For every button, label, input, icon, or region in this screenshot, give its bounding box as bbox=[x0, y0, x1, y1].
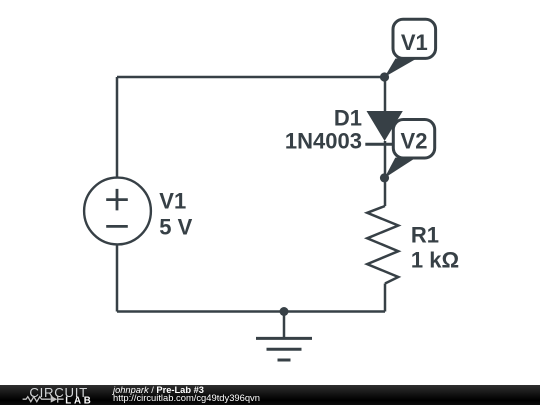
flag V2 tail bbox=[385, 158, 417, 178]
svg-text:V2: V2 bbox=[401, 129, 428, 154]
flag V1 tail bbox=[385, 59, 417, 78]
voltage source V1 bbox=[84, 178, 151, 245]
ground bar 2 bbox=[267, 348, 302, 351]
wire resistor bottom bbox=[384, 284, 387, 312]
footer bar bbox=[0, 385, 540, 405]
wire diode to resistor bbox=[384, 141, 387, 206]
label V1 5 V bbox=[159, 189, 192, 240]
flag V1 box bbox=[393, 19, 436, 58]
ground stem bbox=[283, 312, 286, 339]
node dot middle bbox=[380, 173, 389, 182]
svg-text:http://circuitlab.com/cg49tdy3: http://circuitlab.com/cg49tdy396qvn bbox=[113, 392, 260, 403]
logo diode bbox=[51, 396, 58, 403]
node dot ground bbox=[280, 307, 289, 316]
ground bar 3 bbox=[278, 359, 291, 362]
wire right upper bbox=[384, 77, 387, 111]
label R1 1 kOhm bbox=[411, 222, 459, 272]
wire bottom bbox=[117, 310, 385, 313]
flag V2 box bbox=[393, 120, 434, 159]
svg-text:LAB: LAB bbox=[65, 396, 93, 405]
resistor R1 bbox=[367, 206, 398, 284]
svg-text:V1: V1 bbox=[159, 189, 186, 214]
plus sign bbox=[106, 189, 128, 211]
svg-text:1N4003: 1N4003 bbox=[285, 129, 362, 154]
wire left bbox=[116, 77, 119, 178]
svg-text:R1: R1 bbox=[411, 222, 439, 247]
label D1 1N4003 bbox=[285, 106, 362, 154]
wire top bbox=[117, 76, 385, 79]
svg-text:V1: V1 bbox=[401, 30, 428, 55]
svg-text:5 V: 5 V bbox=[159, 214, 192, 239]
diode cathode bar bbox=[365, 143, 404, 146]
minus sign bbox=[106, 225, 128, 228]
ground bbox=[256, 312, 312, 361]
diode D1 bbox=[367, 111, 403, 141]
logo squiggle bbox=[23, 397, 51, 402]
ground bar 1 bbox=[256, 337, 312, 340]
wire left lower bbox=[116, 244, 119, 312]
svg-text:1 kΩ: 1 kΩ bbox=[411, 248, 459, 273]
svg-text:D1: D1 bbox=[334, 106, 362, 131]
node dot top bbox=[380, 72, 389, 81]
